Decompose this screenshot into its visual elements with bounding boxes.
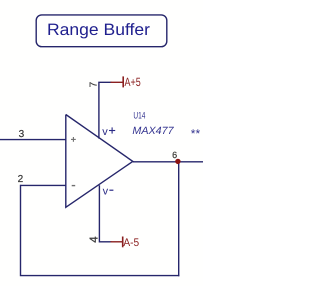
svg-text:6: 6	[172, 150, 177, 160]
svg-text:MAX477: MAX477	[132, 125, 174, 137]
svg-text:A+5: A+5	[125, 75, 141, 89]
svg-text:v: v	[102, 126, 108, 138]
svg-text:v: v	[103, 185, 109, 197]
svg-text:A-5: A-5	[123, 237, 139, 249]
svg-text:2: 2	[18, 174, 24, 185]
svg-text:3: 3	[19, 129, 25, 140]
svg-text:4: 4	[88, 236, 100, 243]
svg-text:**: **	[191, 126, 201, 140]
svg-text:7: 7	[89, 81, 100, 87]
svg-text:U14: U14	[133, 111, 145, 122]
svg-text:Range Buffer: Range Buffer	[47, 21, 151, 39]
